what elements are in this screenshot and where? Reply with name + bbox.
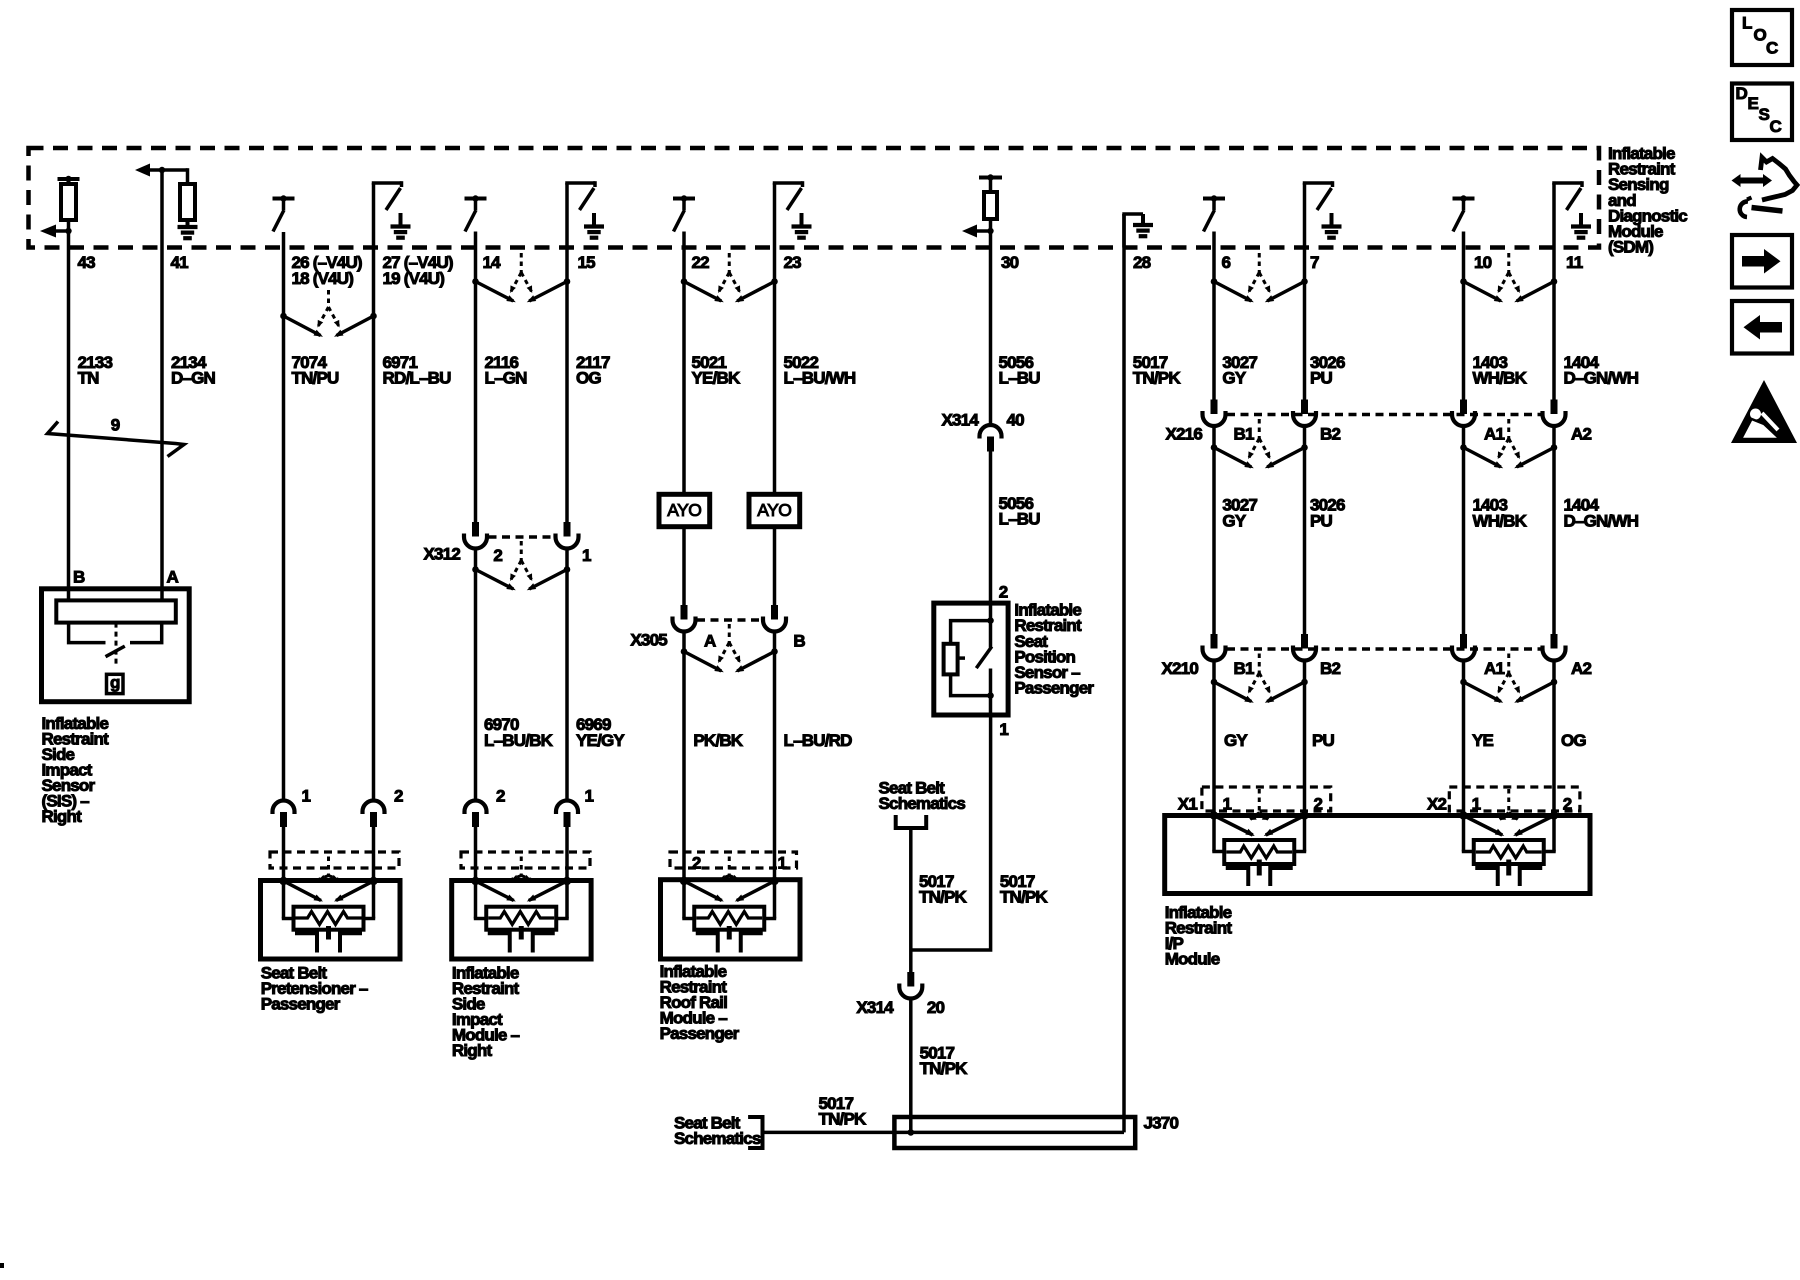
roof rail connector pin labels <box>692 854 787 873</box>
wire 5017 TN/PK (pin 28 to J370) <box>1122 214 1126 1132</box>
svg-text:Passenger: Passenger <box>1014 679 1094 698</box>
svg-text:1: 1 <box>585 787 594 806</box>
wire from seat belt schematics <box>909 828 913 972</box>
svg-text:TN/PK: TN/PK <box>1000 887 1049 906</box>
svg-text:1: 1 <box>1223 795 1232 814</box>
X216 dashed link <box>1227 413 1541 417</box>
svg-text:L–BU/BK: L–BU/BK <box>484 731 554 750</box>
icon right-arrow box <box>1732 235 1792 288</box>
wire 3026 PU (pin 7) <box>1303 233 1307 400</box>
twisted pair below X312 <box>472 541 570 590</box>
connector X312 pin 1 <box>556 522 579 549</box>
svg-text:X305: X305 <box>630 630 667 649</box>
wire label 5056 L-BU (lower) <box>999 494 1041 529</box>
X1 labels <box>1178 795 1323 814</box>
svg-text:2: 2 <box>1314 795 1323 814</box>
wire color labels (GY PU YE OG) <box>1224 731 1586 750</box>
SDM switch-to-ground at pin 15 <box>565 181 604 238</box>
SDM switch-to-ground at pin 27 <box>372 181 411 238</box>
svg-text:X210: X210 <box>1161 659 1198 678</box>
SIS label <box>42 714 110 826</box>
svg-text:2: 2 <box>496 787 505 806</box>
Seat Belt Pretensioner box <box>261 881 401 960</box>
svg-text:28: 28 <box>1133 253 1151 272</box>
svg-text:D–GN/WH: D–GN/WH <box>1564 368 1639 387</box>
svg-text:B2: B2 <box>1320 659 1340 678</box>
svg-text:2: 2 <box>1563 795 1572 814</box>
svg-text:19 (V4U): 19 (V4U) <box>383 269 445 288</box>
svg-text:g: g <box>110 673 120 692</box>
twisted pair below X305 <box>681 624 778 672</box>
wire 5017 TN/PK (X314-20 to J370) <box>909 999 913 1132</box>
svg-text:TN/PK: TN/PK <box>819 1109 868 1128</box>
AYO box (circuit 5021) <box>659 494 710 526</box>
connector X314 pin 40 <box>941 411 1024 452</box>
svg-text:B2: B2 <box>1320 425 1340 444</box>
X210 labels <box>1161 659 1591 678</box>
svg-text:23: 23 <box>784 253 802 272</box>
svg-text:TN/PK: TN/PK <box>920 1059 969 1078</box>
SIS dashed actuator line <box>115 623 118 664</box>
Inflatable Restraint I/P Module box <box>1165 816 1590 894</box>
wire 1403 WH/BK (X216 to X210) <box>1462 426 1466 636</box>
svg-text:D–GN/WH: D–GN/WH <box>1564 511 1639 530</box>
svg-text:PU: PU <box>1312 731 1335 750</box>
svg-text:L–BU/WH: L–BU/WH <box>784 368 856 387</box>
svg-text:A2: A2 <box>1571 659 1591 678</box>
svg-text:YE: YE <box>1472 731 1494 750</box>
svg-text:Right: Right <box>452 1041 493 1060</box>
dashed connector box X1 <box>1202 787 1331 811</box>
twisted pair below X216 (3027/3026) <box>1211 419 1308 468</box>
dashed in-line connector box (roof rail module) <box>670 852 797 868</box>
twisted pair 1403/1404 <box>1460 253 1557 302</box>
svg-text:E: E <box>1748 94 1759 113</box>
svg-text:AYO: AYO <box>667 500 701 520</box>
svg-text:(SDM): (SDM) <box>1608 238 1653 257</box>
wire 2134 D-GN (pin 41 to SIS A) <box>160 170 164 600</box>
svg-text:OG: OG <box>1561 731 1586 750</box>
svg-text:X314: X314 <box>856 998 894 1017</box>
connector X216 pin B2 <box>1293 400 1316 427</box>
svg-text:RD/L–BU: RD/L–BU <box>383 368 452 387</box>
wire 6971 RD/L-BU (pin 27) <box>372 233 376 801</box>
svg-text:2: 2 <box>999 583 1008 602</box>
svg-text:B: B <box>73 568 85 587</box>
SDM arrow out (pin 41) <box>135 164 188 177</box>
wire circuit labels (middle row) <box>484 715 852 750</box>
svg-text:B1: B1 <box>1234 425 1254 444</box>
svg-text:TN: TN <box>78 368 100 387</box>
svg-text:1: 1 <box>778 854 787 873</box>
dashed in-line connector box (pretensioner) <box>270 852 399 868</box>
svg-text:OG: OG <box>576 368 601 387</box>
svg-text:L–GN: L–GN <box>485 368 528 387</box>
wire PK/BK (AYO to X305 A) <box>682 527 686 605</box>
page edge mark <box>0 1263 4 1268</box>
svg-text:18 (V4U): 18 (V4U) <box>292 269 354 288</box>
wire 5056 L-BU (X314 to sensor) <box>989 451 993 621</box>
twisted pair below X210 (GY/PU) <box>1211 654 1308 703</box>
Roof Rail Module label <box>660 962 740 1043</box>
connector X210 pin A1 <box>1452 634 1475 661</box>
svg-text:GY: GY <box>1222 368 1246 387</box>
svg-text:B: B <box>793 632 805 651</box>
Roof Rail Module box <box>661 880 801 959</box>
wire L-BU/RD (X305 to roof rail 1) <box>773 631 777 880</box>
wire PU (X210 to I/P) <box>1303 661 1307 816</box>
SDM arrow out (pin 30) <box>962 225 994 238</box>
wire 1403 WH/BK (pin 10) <box>1462 232 1466 400</box>
wire 5022 L-BU/WH (pin 23) <box>773 233 777 495</box>
Seat Belt Schematics reference (upper) <box>879 779 966 829</box>
SDM resistor+ground at pin 41 <box>178 168 198 238</box>
wire 5021 YE/BK (pin 22) <box>682 232 686 495</box>
wire OG (X210 to I/P) <box>1552 661 1556 816</box>
svg-text:L–BU: L–BU <box>999 368 1041 387</box>
svg-text:PK/BK: PK/BK <box>693 731 743 750</box>
connector X305 pin B <box>763 605 786 632</box>
icon wire-routing tool <box>1732 158 1798 218</box>
connector X312 pin 2 <box>464 522 487 549</box>
SDM switch-to-ground at pin 7 <box>1303 181 1342 238</box>
wire 3027 GY (pin 6) <box>1212 232 1216 400</box>
connector X314 pin 20 <box>856 972 944 1017</box>
X305 labels <box>630 630 805 650</box>
svg-text:A2: A2 <box>1571 425 1591 444</box>
SDM ground at pin 28 <box>1122 214 1153 248</box>
X210 dashed link <box>1227 647 1541 651</box>
sensor pin 1 label <box>999 720 1008 739</box>
svg-text:30: 30 <box>1001 253 1019 272</box>
svg-text:6: 6 <box>1222 253 1231 272</box>
wire L-BU/RD (AYO to X305 B) <box>773 527 777 605</box>
icon LOC box <box>1732 10 1792 65</box>
icon left-arrow box <box>1732 301 1792 354</box>
svg-text:40: 40 <box>1007 411 1025 430</box>
wire 3026 PU (X216 to X210) <box>1303 426 1307 636</box>
svg-text:GY: GY <box>1222 511 1246 530</box>
wire 2117 OG (pin 15) <box>565 233 569 523</box>
svg-text:TN/PU: TN/PU <box>292 368 340 387</box>
SDM switch at pin 26 <box>273 195 295 231</box>
connector pin 2 (pretensioner) <box>363 787 404 828</box>
svg-text:TN/PK: TN/PK <box>1133 368 1182 387</box>
wire stub side impact pin1 <box>565 827 569 881</box>
svg-text:22: 22 <box>692 253 710 272</box>
SDM switch-to-ground at pin 11 <box>1552 181 1591 238</box>
twisted pair 3027/3026 <box>1211 253 1308 302</box>
svg-text:Right: Right <box>42 807 83 826</box>
wire 2116 L-GN (pin 14) <box>474 232 478 523</box>
wire 5017 TN/PK (sensor to X314-20) <box>911 715 991 950</box>
svg-text:7: 7 <box>1310 253 1319 272</box>
I/P Module label <box>1165 903 1233 969</box>
I/P module squib (passenger airbag stage 1) <box>1210 789 1309 886</box>
svg-text:1: 1 <box>302 787 311 806</box>
connector X305 pin A <box>673 605 696 632</box>
svg-text:9: 9 <box>111 416 120 435</box>
SDM switch-to-ground at pin 23 <box>773 181 812 238</box>
svg-text:A: A <box>167 568 179 587</box>
connector X216 pin A1 <box>1452 400 1475 427</box>
SDM arrow out (pin 43) <box>40 225 72 238</box>
dashed connector box X2 <box>1449 787 1580 811</box>
wire 2133 TN (pin 43 to SIS B) <box>67 231 71 600</box>
svg-text:O: O <box>1754 26 1767 45</box>
twisted pair 5021/5022 <box>681 253 778 302</box>
SIS internal contacts <box>69 623 162 643</box>
svg-text:S: S <box>1759 105 1770 124</box>
dashed in-line connector box (side impact module) <box>461 852 590 868</box>
X216 labels <box>1165 425 1591 444</box>
SIS sensing element <box>56 600 176 622</box>
connector pin 1 (pretensioner) <box>273 787 311 828</box>
svg-text:B1: B1 <box>1234 659 1254 678</box>
svg-text:GY: GY <box>1224 731 1248 750</box>
Side Impact Module box <box>452 881 591 960</box>
twisted pair below X210 (YE/OG) <box>1460 654 1557 703</box>
svg-text:D–GN: D–GN <box>171 368 216 387</box>
X305 dashed link <box>697 618 762 622</box>
X312 labels <box>423 545 591 565</box>
SDM module label (Inflatable Restraint Sensing and Diagnostic Module (SDM)) <box>1608 144 1687 257</box>
sensor switch blade <box>976 647 992 669</box>
wire GY (X210 to I/P) <box>1212 661 1216 816</box>
svg-text:L–BU: L–BU <box>999 509 1041 528</box>
connector X216 pin B1 <box>1203 400 1226 427</box>
twisted pair 2116/2117 <box>472 253 570 302</box>
svg-text:1: 1 <box>1472 795 1481 814</box>
icon SIR caution triangle <box>1731 380 1797 443</box>
svg-text:Passenger: Passenger <box>660 1024 740 1043</box>
svg-text:X314: X314 <box>941 411 979 430</box>
SDM module dashed boundary box <box>29 148 1600 248</box>
twisted pair below X216 (1403/1404) <box>1460 419 1557 468</box>
roof rail module squib <box>680 857 779 953</box>
svg-text:X216: X216 <box>1165 425 1202 444</box>
svg-text:YE/BK: YE/BK <box>692 368 741 387</box>
wire 1404 D-GN/WH (X216 to X210) <box>1552 426 1556 636</box>
Side Impact Module label <box>452 963 520 1060</box>
wire label 5017 TN/PK (J370 feed) <box>819 1094 868 1129</box>
Seat Belt Schematics reference (lower) <box>674 1114 763 1149</box>
svg-text:10: 10 <box>1474 253 1492 272</box>
svg-text:A1: A1 <box>1484 425 1504 444</box>
svg-text:A: A <box>704 632 716 651</box>
wire labels 5017 TN/PK pair <box>919 872 1048 907</box>
svg-text:11: 11 <box>1566 253 1583 272</box>
Seat Position Sensor box <box>934 603 1008 715</box>
sensor internal resistor branch <box>944 617 994 699</box>
svg-text:2: 2 <box>692 854 701 873</box>
svg-text:14: 14 <box>483 253 502 272</box>
svg-text:X312: X312 <box>423 545 460 564</box>
icon DESC box <box>1732 84 1792 141</box>
svg-text:X2: X2 <box>1427 795 1447 814</box>
svg-text:1: 1 <box>582 546 591 565</box>
svg-text:D: D <box>1736 84 1748 103</box>
svg-text:AYO: AYO <box>757 500 791 520</box>
svg-text:PU: PU <box>1310 511 1333 530</box>
AYO box (circuit 5022) <box>749 494 800 526</box>
wire circuit labels (right lower row) <box>1222 495 1638 530</box>
svg-text:Schematics: Schematics <box>879 794 966 813</box>
wire 3027 GY (X216 to X210) <box>1212 426 1216 636</box>
wire stub pretensioner pin2 <box>372 827 376 881</box>
wire 1404 D-GN/WH (pin 11) <box>1552 233 1556 400</box>
svg-text:2: 2 <box>394 787 403 806</box>
J370 bus wire <box>763 1129 1125 1136</box>
side impact module squib <box>471 857 571 953</box>
svg-text:WH/BK: WH/BK <box>1473 511 1528 530</box>
svg-text:15: 15 <box>578 253 596 272</box>
wire label 5017 TN/PK (lower) <box>920 1044 969 1079</box>
splice pack J370 box <box>894 1117 1135 1148</box>
svg-text:43: 43 <box>78 253 96 272</box>
svg-text:L: L <box>1742 13 1752 32</box>
wire YE (X210 to I/P) <box>1462 661 1466 816</box>
X312 dashed link <box>489 535 555 539</box>
SDM switch at pin 6 <box>1203 195 1225 231</box>
SDM switch at pin 10 <box>1453 195 1475 231</box>
svg-text:PU: PU <box>1310 368 1333 387</box>
pretensioner squib <box>279 857 377 953</box>
SIS pin labels <box>73 568 179 587</box>
SDM resistor at pin 43 <box>58 176 80 231</box>
svg-text:1: 1 <box>999 720 1008 739</box>
connector X210 pin B2 <box>1293 634 1316 661</box>
X2 labels <box>1427 795 1572 814</box>
wire crossing jog 9 <box>48 416 185 457</box>
wire stub pretensioner pin1 <box>282 827 286 881</box>
connector X210 pin B1 <box>1203 634 1226 661</box>
Inflatable Restraint Side Impact Sensor box <box>42 589 190 702</box>
svg-text:20: 20 <box>927 998 945 1017</box>
svg-text:Module: Module <box>1165 949 1220 968</box>
svg-text:YE/GY: YE/GY <box>576 731 625 750</box>
wire 5056 L-BU (pin 30) <box>989 231 993 425</box>
svg-text:Passenger: Passenger <box>261 994 341 1013</box>
SDM switch at pin 22 <box>673 195 695 231</box>
svg-text:J370: J370 <box>1144 1114 1179 1133</box>
connector pin 2 (side impact module) <box>465 787 506 828</box>
wire stub side impact pin2 <box>474 827 478 881</box>
SIS switch blade <box>106 646 125 657</box>
svg-text:41: 41 <box>171 253 189 272</box>
wire PK/BK (X305 to roof rail 2) <box>682 631 686 880</box>
SIS g-reference box <box>107 673 124 693</box>
connector pin 1 (side impact module) <box>556 787 594 828</box>
svg-text:2: 2 <box>493 546 502 565</box>
connector X210 pin A2 <box>1543 634 1566 661</box>
svg-text:Schematics: Schematics <box>674 1129 761 1148</box>
svg-text:C: C <box>1770 117 1782 136</box>
wire circuit labels (upper row) <box>78 353 1639 387</box>
svg-text:X1: X1 <box>1178 795 1198 814</box>
wire 6969 YE/GY (X312-1 to module) <box>565 548 569 801</box>
svg-text:WH/BK: WH/BK <box>1473 368 1528 387</box>
connector X216 pin A2 <box>1543 400 1566 427</box>
svg-text:TN/PK: TN/PK <box>919 887 968 906</box>
SDM switch at pin 14 <box>465 195 487 231</box>
svg-text:A1: A1 <box>1484 659 1504 678</box>
Seat Belt Pretensioner label <box>261 963 368 1013</box>
sensor wire segments <box>989 621 993 715</box>
SDM pin numbers <box>78 253 1583 288</box>
svg-text:C: C <box>1766 39 1778 58</box>
J370 label <box>1144 1114 1179 1133</box>
I/P module squib (passenger airbag stage 2) <box>1459 789 1558 886</box>
twisted pair 7074/6971 <box>280 290 377 337</box>
sensor pin 2 label <box>999 583 1008 602</box>
wire 7074 TN/PU (pin 26) <box>282 232 286 801</box>
svg-text:L–BU/RD: L–BU/RD <box>784 731 853 750</box>
wire 6970 L-BU/BK (X312-2 to module) <box>474 548 478 801</box>
Seat Position Sensor label <box>1014 601 1094 698</box>
SDM resistor at pin 30 <box>979 174 1002 231</box>
